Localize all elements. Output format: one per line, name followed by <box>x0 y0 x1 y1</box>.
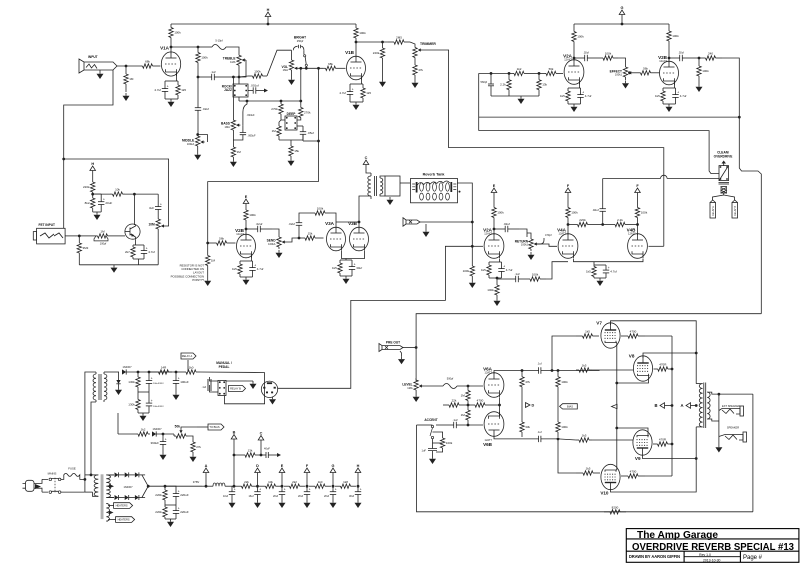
ground <box>250 381 257 389</box>
svg-text:.1uf: .1uf <box>202 385 207 389</box>
junction <box>267 23 270 26</box>
wire <box>197 148 199 153</box>
wire <box>573 49 575 61</box>
svg-text:D: D <box>532 404 535 408</box>
svg-text:10k: 10k <box>115 188 120 192</box>
svg-text:4.7uf: 4.7uf <box>339 91 346 95</box>
capacitor 4.7uf <box>603 265 617 278</box>
wire <box>149 371 155 373</box>
wire <box>175 502 177 505</box>
svg-text:22k: 22k <box>452 399 457 403</box>
wire <box>170 41 172 54</box>
svg-text:V9: V9 <box>635 456 641 461</box>
diode rectifier <box>135 495 139 500</box>
svg-text:20uf: 20uf <box>298 494 303 498</box>
tube V2A <box>563 54 584 85</box>
wire <box>165 98 178 100</box>
wire <box>416 314 761 381</box>
resistor 100k return 100k <box>492 203 504 222</box>
node A <box>680 403 690 409</box>
wire <box>188 436 193 440</box>
wire <box>361 77 363 84</box>
wire to VOL <box>267 50 292 76</box>
wire V1B plate out <box>356 41 388 43</box>
reverb return plug <box>403 218 420 227</box>
node B <box>654 403 664 409</box>
resistor V2A plate 100k <box>572 24 584 49</box>
svg-text:V3A: V3A <box>325 221 335 226</box>
resistor 68k <box>323 62 338 71</box>
resistor 8200 <box>604 505 626 514</box>
svg-text:.02uf: .02uf <box>678 51 684 55</box>
svg-text:4700: 4700 <box>477 399 484 403</box>
resistor 33k <box>520 417 531 437</box>
svg-text:130k: 130k <box>128 380 135 384</box>
wire <box>157 433 175 435</box>
mains plug <box>23 479 43 492</box>
ground <box>229 500 236 508</box>
wire <box>165 80 178 82</box>
svg-text:V1B: V1B <box>345 50 355 55</box>
wire <box>357 473 359 487</box>
wire <box>208 182 319 243</box>
label <box>152 427 162 431</box>
resistor 1k2 <box>509 67 529 76</box>
svg-text:+: + <box>360 488 362 492</box>
svg-text:470pf: 470pf <box>545 233 552 237</box>
wire <box>119 474 125 476</box>
svg-text:OVERDRIVE: OVERDRIVE <box>714 155 733 159</box>
diode rectifier <box>125 472 129 477</box>
junction <box>78 235 81 238</box>
wire <box>665 405 673 407</box>
wire V1A plate to tone stack <box>171 46 198 48</box>
svg-text:E: E <box>245 195 248 199</box>
svg-text:12AT7: 12AT7 <box>485 371 493 375</box>
label 1N4007 <box>122 365 132 369</box>
junction <box>567 223 570 226</box>
junction <box>162 433 165 436</box>
capacitor .1uf <box>510 272 524 282</box>
svg-text:DRAWN BY AARON GIFFIN: DRAWN BY AARON GIFFIN <box>629 554 681 559</box>
svg-text:270k: 270k <box>304 111 311 115</box>
resistor 68k <box>141 60 154 69</box>
svg-text:1k5: 1k5 <box>366 91 371 95</box>
label <box>324 494 329 498</box>
wire <box>541 438 558 440</box>
svg-text:4.7uf: 4.7uf <box>585 94 592 98</box>
svg-text:BIAS: BIAS <box>567 405 573 409</box>
svg-text:E: E <box>281 464 284 468</box>
svg-text:100k: 100k <box>641 211 648 215</box>
svg-text:+: + <box>335 488 337 492</box>
junction <box>260 454 263 457</box>
svg-text:12AX7: 12AX7 <box>564 58 572 62</box>
svg-text:100k: 100k <box>446 441 453 445</box>
capacitor .033uf <box>243 101 255 125</box>
svg-text:4700: 4700 <box>630 470 637 474</box>
svg-text:2M5: 2M5 <box>396 36 402 40</box>
svg-text:1MA: 1MA <box>283 68 289 72</box>
svg-text:100k: 100k <box>249 213 256 217</box>
capacitor 4.7uf <box>498 262 512 278</box>
wire <box>529 72 541 74</box>
label <box>216 361 232 369</box>
wire <box>637 222 639 235</box>
ground <box>160 452 167 460</box>
wire fet jack switch <box>63 159 65 228</box>
resistor 1k5 <box>576 330 599 339</box>
wire <box>165 518 176 520</box>
wire <box>127 371 177 373</box>
svg-text:1k2: 1k2 <box>517 67 522 71</box>
arrow <box>109 511 114 515</box>
potentiometer TREBLE <box>223 54 246 68</box>
svg-text:13k: 13k <box>248 449 253 453</box>
resistor 1k0 <box>182 366 200 375</box>
svg-text:100k: 100k <box>672 34 679 38</box>
node E <box>243 195 249 204</box>
resistor 1k8 <box>335 480 356 489</box>
resistor 1M <box>231 145 241 159</box>
wire <box>148 485 202 487</box>
wire <box>79 235 93 237</box>
resistor 1k5 <box>576 467 600 476</box>
svg-text:5-10pf: 5-10pf <box>215 39 223 43</box>
label 100uF/35V <box>153 406 164 408</box>
resistor 220k bleed 220k <box>155 488 167 502</box>
wire grid gnd <box>491 95 539 97</box>
svg-text:10k: 10k <box>268 480 273 484</box>
wire <box>318 68 320 181</box>
svg-text:INPUT: INPUT <box>88 55 98 59</box>
wire <box>663 103 676 105</box>
ground <box>190 454 197 462</box>
capacitor 40uF <box>264 447 273 459</box>
diode rectifier <box>115 495 119 500</box>
capacitor 20uf <box>330 486 337 500</box>
svg-text:H: H <box>267 8 270 12</box>
capacitor 20uf <box>304 486 311 500</box>
wire <box>335 222 337 229</box>
wire <box>226 380 253 382</box>
svg-text:4.7uf: 4.7uf <box>610 270 617 274</box>
svg-text:Reverb Tank: Reverb Tank <box>423 173 446 177</box>
wire <box>129 497 135 499</box>
junction <box>246 100 249 103</box>
wire <box>643 427 697 459</box>
wire <box>425 224 427 229</box>
wire <box>138 391 149 393</box>
wire <box>299 213 310 217</box>
svg-text:.05uf: .05uf <box>307 131 314 135</box>
svg-text:4.7uf: 4.7uf <box>257 267 264 271</box>
ground <box>276 250 283 258</box>
svg-text:1k0: 1k0 <box>318 480 323 484</box>
svg-text:10M: 10M <box>148 223 155 227</box>
wire <box>85 474 93 476</box>
label .02uf <box>583 51 589 55</box>
wire <box>724 195 735 200</box>
svg-text:PEDAL: PEDAL <box>219 365 230 369</box>
svg-text:1k5: 1k5 <box>586 467 591 471</box>
capacitor 5-10pf <box>212 39 226 50</box>
svg-text:1k5: 1k5 <box>481 268 486 272</box>
capacitor 500pf <box>443 377 457 389</box>
svg-text:220uF: 220uF <box>180 510 189 514</box>
capacitor 390uF <box>150 434 166 452</box>
capacitor 20uF <box>98 194 112 212</box>
tag HEATERS <box>116 517 135 523</box>
svg-text:.065uF: .065uF <box>248 134 256 138</box>
potentiometer VOL <box>281 58 298 72</box>
svg-text:POINT??: POINT?? <box>192 278 204 282</box>
capacitor <box>669 55 693 61</box>
svg-text:100k: 100k <box>571 211 578 215</box>
wire <box>164 502 166 505</box>
wire vol wiper <box>299 67 324 69</box>
wire <box>433 442 443 444</box>
wire <box>436 450 443 452</box>
svg-text:.02uf: .02uf <box>256 222 263 226</box>
junction <box>317 67 320 70</box>
junction <box>668 57 671 60</box>
resistor 100k E 100k <box>244 206 256 224</box>
junction <box>164 485 167 488</box>
tag HEATERS <box>114 503 133 509</box>
svg-text:2.2k: 2.2k <box>500 83 506 87</box>
resistor 14R <box>155 366 172 375</box>
junction <box>147 485 150 488</box>
wire <box>85 372 96 479</box>
svg-text:100k: 100k <box>605 52 612 56</box>
svg-text:50k: 50k <box>175 425 181 429</box>
wire <box>197 426 208 428</box>
wire <box>603 178 661 180</box>
resistor 1k5 <box>232 261 242 277</box>
svg-text:+: + <box>234 488 236 492</box>
label RETURN <box>515 240 529 247</box>
resistor 1k5 <box>655 88 665 104</box>
node C <box>363 156 369 165</box>
ground <box>330 500 337 508</box>
arrow bias <box>273 453 281 457</box>
svg-text:1M: 1M <box>129 77 134 81</box>
svg-text:+: + <box>259 488 261 492</box>
wire v6a cathode <box>499 398 501 406</box>
wire <box>291 50 293 58</box>
svg-text:220k: 220k <box>155 493 162 497</box>
svg-text:V7: V7 <box>596 320 602 325</box>
ground <box>528 252 535 260</box>
resistor 1M <box>461 386 471 405</box>
wire <box>257 473 259 487</box>
svg-text:100k: 100k <box>532 273 539 277</box>
wire <box>497 278 510 280</box>
junction <box>245 228 248 231</box>
wire v6b cathode <box>499 405 501 417</box>
wire <box>420 221 472 223</box>
diode <box>122 369 126 374</box>
wire <box>594 277 606 279</box>
svg-text:100uF/35V: 100uF/35V <box>153 406 164 408</box>
junction <box>280 100 283 103</box>
svg-text:100kA: 100kA <box>268 242 276 246</box>
wire <box>267 17 269 25</box>
svg-text:+: + <box>151 376 153 380</box>
svg-text:+: + <box>160 202 162 206</box>
junction <box>332 485 335 488</box>
wire <box>104 371 119 373</box>
wire <box>592 369 633 371</box>
svg-text:13k: 13k <box>542 83 547 87</box>
label <box>714 151 733 159</box>
junction <box>471 221 474 224</box>
capacitor 4.7uf <box>339 84 353 102</box>
svg-text:.02uf: .02uf <box>503 222 510 226</box>
wire <box>176 371 182 373</box>
capacitor 4.7uf <box>141 245 155 259</box>
wire <box>302 135 304 141</box>
capacitor .02uf <box>195 102 209 116</box>
resistor 270k <box>271 101 283 117</box>
svg-text:1k5: 1k5 <box>332 266 337 270</box>
ground <box>111 265 118 273</box>
svg-text:20uf: 20uf <box>273 494 278 498</box>
wire <box>118 433 136 435</box>
junction <box>695 457 698 460</box>
wire <box>133 224 135 227</box>
ground <box>97 71 104 79</box>
wire <box>617 376 649 384</box>
wire <box>258 454 266 456</box>
svg-text:E: E <box>493 184 496 188</box>
capacitor 16uf <box>254 486 261 500</box>
junction <box>175 371 178 374</box>
svg-text:250pf: 250pf <box>297 39 304 43</box>
svg-text:100k: 100k <box>561 425 568 429</box>
wire treble wiper <box>239 60 246 77</box>
label <box>273 494 278 498</box>
svg-text:1k2: 1k2 <box>141 428 146 432</box>
wire <box>157 233 159 265</box>
resistor 4700 <box>621 330 645 339</box>
ground <box>571 104 578 112</box>
wire <box>232 77 234 120</box>
wire <box>232 130 234 145</box>
capacitor 220uF <box>173 505 189 519</box>
capacitor .001uf <box>250 83 259 93</box>
svg-text:.02uf: .02uf <box>592 208 599 212</box>
svg-text:100k: 100k <box>487 288 494 292</box>
wire <box>281 473 283 487</box>
resistor 1k2 <box>136 428 150 437</box>
wire <box>713 193 724 200</box>
resistor 220k <box>373 42 385 64</box>
junction <box>381 41 384 44</box>
svg-text:12AT7: 12AT7 <box>559 232 567 236</box>
junction <box>358 221 361 224</box>
capacitor .02uf <box>246 222 272 232</box>
inductor choke <box>213 483 225 486</box>
svg-text:15k: 15k <box>308 232 313 236</box>
wire <box>202 485 213 487</box>
svg-text:2013-10-30: 2013-10-30 <box>703 558 720 562</box>
wire <box>321 237 324 239</box>
svg-text:.1uf: .1uf <box>210 70 215 74</box>
svg-text:100kA: 100kA <box>187 142 195 146</box>
junction <box>299 67 302 70</box>
wire <box>594 264 606 266</box>
svg-text:1M: 1M <box>100 230 105 234</box>
wire <box>197 77 199 102</box>
svg-text:1uF: 1uF <box>422 449 427 453</box>
resistor 130k <box>128 372 140 392</box>
wire <box>138 259 140 265</box>
junction <box>62 158 65 161</box>
wire <box>245 224 247 236</box>
svg-text:B: B <box>233 430 236 434</box>
potentiometer <box>413 45 422 60</box>
svg-text:V8: V8 <box>629 353 635 358</box>
svg-text:C: C <box>365 156 368 160</box>
junction <box>538 72 541 75</box>
junction <box>91 193 94 196</box>
capacitor 470pf <box>536 233 552 244</box>
junction <box>467 385 470 388</box>
svg-text:RELAY B: RELAY B <box>734 206 737 216</box>
capacitor .05uf <box>300 126 314 140</box>
wire <box>457 183 472 222</box>
wire <box>306 473 308 487</box>
wire <box>668 48 670 63</box>
resistor 22k <box>443 399 465 408</box>
svg-text:FUSE: FUSE <box>68 467 76 471</box>
resistor 1k5 <box>332 260 342 276</box>
resistor 1k5 <box>576 364 592 373</box>
wire screen v10 <box>645 475 672 477</box>
svg-text:RELAY A: RELAY A <box>712 206 715 216</box>
tube V2A <box>483 228 504 259</box>
label DEEP <box>287 112 297 116</box>
resistor 10k <box>110 188 125 197</box>
wire nfb vertical <box>752 394 754 512</box>
wire <box>617 428 648 436</box>
svg-text:220k: 220k <box>83 185 90 189</box>
resistor 130k <box>128 396 140 413</box>
wire <box>561 72 563 74</box>
wire <box>240 260 253 262</box>
svg-text:.1uf: .1uf <box>537 430 542 434</box>
wire <box>248 90 250 92</box>
ground <box>353 102 360 110</box>
wire <box>84 479 86 492</box>
wire <box>245 204 247 207</box>
svg-text:3M3: 3M3 <box>83 246 89 250</box>
ground <box>288 158 295 166</box>
output transformer <box>696 383 710 429</box>
wire <box>181 427 197 429</box>
junction <box>718 393 721 396</box>
wire <box>108 505 114 507</box>
svg-text:D: D <box>256 464 259 468</box>
svg-text:1M: 1M <box>461 413 466 417</box>
svg-text:1N4007: 1N4007 <box>122 365 132 369</box>
capacitor 4.7uf <box>154 81 168 99</box>
wire <box>568 103 581 105</box>
svg-text:Rev 1.0: Rev 1.0 <box>699 553 711 557</box>
svg-text:500pf: 500pf <box>447 377 454 381</box>
